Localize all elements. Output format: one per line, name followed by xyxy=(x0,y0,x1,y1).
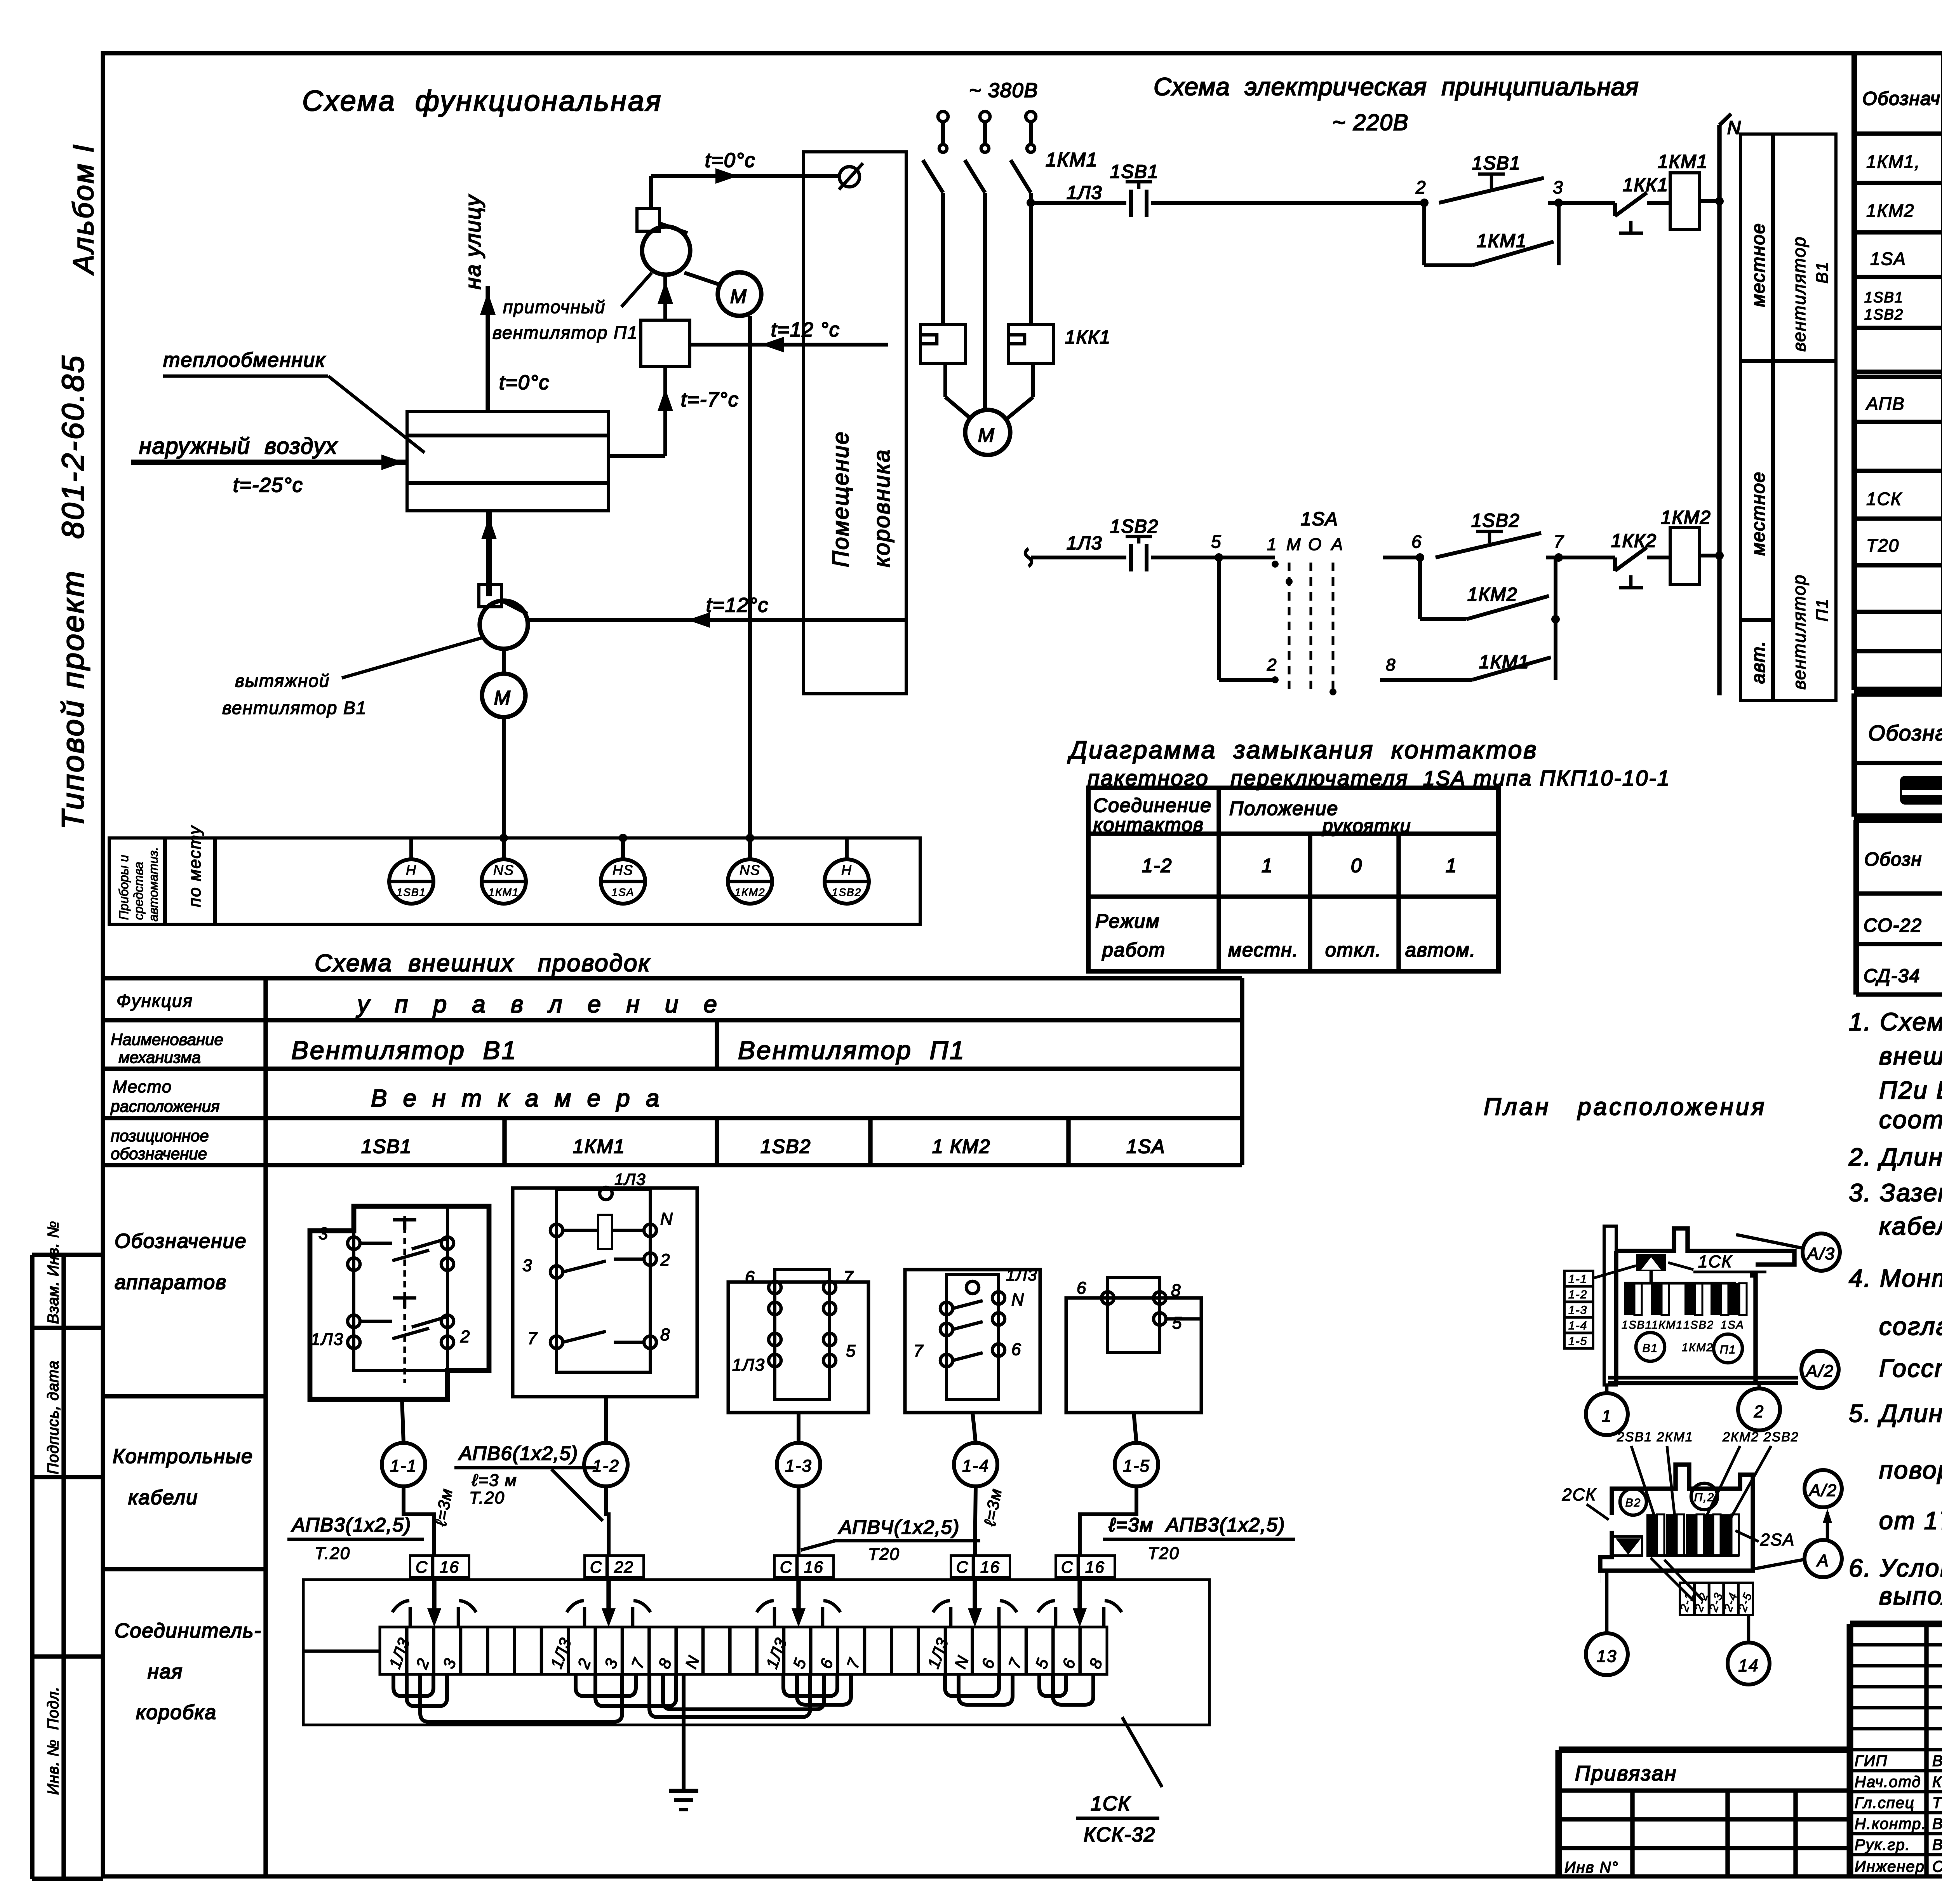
thermal element 1KK1 heaters xyxy=(921,203,1053,363)
apparatus box 1SB2 xyxy=(728,1270,868,1413)
label supply fan P1 xyxy=(492,273,652,343)
cable list table upper plan xyxy=(1564,1271,1593,1348)
labels lower plan designators xyxy=(1617,1430,1799,1521)
cable circle 1-2 xyxy=(584,1397,628,1556)
labels upper plan apparatus xyxy=(1622,1319,1744,1354)
svg-text:1SA: 1SA xyxy=(1126,1136,1166,1157)
svg-text:Н.контр.: Н.контр. xyxy=(1855,1815,1926,1833)
fixings table grid xyxy=(1856,817,1942,995)
svg-text:местн.: местн. xyxy=(1228,939,1299,961)
svg-text:1КМ1: 1КМ1 xyxy=(489,886,519,898)
svg-text:А/3: А/3 xyxy=(1806,1244,1835,1263)
svg-text:8: 8 xyxy=(660,1325,670,1344)
legend labels xyxy=(1748,223,1832,690)
svg-text:22: 22 xyxy=(614,1558,634,1576)
conduit marker C 16 xyxy=(951,1556,1010,1610)
svg-text:1SB2: 1SB2 xyxy=(760,1136,811,1157)
exhaust fan V1 xyxy=(479,584,528,649)
svg-text:1SB2: 1SB2 xyxy=(1864,307,1904,323)
supply terminals 380V xyxy=(938,111,1036,152)
svg-text:0: 0 xyxy=(1351,855,1363,876)
svg-text:повороты и отходы согласно пи: повороты и отходы согласно письму Госстр… xyxy=(1879,1456,1942,1484)
svg-text:расположения: расположения xyxy=(110,1097,220,1115)
labels box 1SB1 xyxy=(311,1224,470,1349)
duct filter to fan arrow xyxy=(658,275,673,320)
svg-text:1-2: 1-2 xyxy=(1142,855,1172,876)
svg-text:Диаграмма замыкания контакто: Диаграмма замыкания контактов xyxy=(1067,736,1538,764)
svg-text:П1: П1 xyxy=(1720,1343,1736,1356)
labels box 1SB2 xyxy=(732,1268,856,1374)
svg-text:16: 16 xyxy=(440,1558,459,1576)
svg-text:Кардонский: Кардонский xyxy=(1932,1773,1942,1791)
layout plan upper room walls xyxy=(1604,1226,1798,1385)
svg-text:А/2: А/2 xyxy=(1808,1481,1837,1500)
svg-text:1Л3: 1Л3 xyxy=(732,1355,765,1374)
external wiring table cells xyxy=(291,991,1166,1157)
svg-text:Волкова: Волкова xyxy=(1932,1815,1942,1833)
svg-text:Т.20: Т.20 xyxy=(315,1544,350,1563)
exhaust duct arrow up xyxy=(481,511,497,596)
svg-text:1СК: 1СК xyxy=(1698,1252,1732,1271)
left labels control cables xyxy=(113,1445,253,1509)
svg-text:В1: В1 xyxy=(1643,1342,1658,1355)
svg-text:1Л3: 1Л3 xyxy=(311,1330,344,1349)
svg-text:5: 5 xyxy=(1211,531,1222,552)
svg-text:1: 1 xyxy=(1602,1407,1612,1426)
svg-text:6: 6 xyxy=(1077,1279,1087,1298)
svg-text:3. Заземление приборов, стоек: 3. Заземление приборов, стоек металличес… xyxy=(1849,1179,1942,1207)
svg-text:2SB1 2КМ1: 2SB1 2КМ1 xyxy=(1617,1430,1693,1444)
junction dot on strip wire xyxy=(619,834,627,842)
svg-text:2: 2 xyxy=(660,1251,670,1270)
equipment legend text xyxy=(1868,713,1942,745)
title contact closure diagram xyxy=(1067,736,1671,790)
svg-text:ℓ=3м АПВ3(1х2,5): ℓ=3м АПВ3(1х2,5) xyxy=(1108,1514,1285,1536)
svg-text:С: С xyxy=(956,1558,969,1576)
disconnect switch blades 1KM1 main xyxy=(923,160,1031,410)
svg-text:Вентилятор В1: Вентилятор В1 xyxy=(291,1036,517,1064)
apparatus box 1KM1 xyxy=(513,1187,697,1397)
terminal strip labels xyxy=(385,1635,1106,1671)
svg-text:14: 14 xyxy=(1738,1656,1759,1675)
external wiring table labels xyxy=(110,991,223,1163)
svg-text:теплообменник: теплообменник xyxy=(163,349,326,371)
svg-text:1КМ1: 1КМ1 xyxy=(1046,149,1098,171)
svg-text:7: 7 xyxy=(844,1268,854,1287)
svg-text:NS: NS xyxy=(493,862,514,878)
svg-text:О: О xyxy=(1308,535,1322,554)
contact closure table text xyxy=(1093,794,1476,961)
motor M of fan V1 xyxy=(482,649,526,717)
svg-text:1-2: 1-2 xyxy=(592,1456,619,1475)
legend table ventilators xyxy=(1740,134,1836,700)
node 3 xyxy=(1554,199,1563,207)
fan circles lower plan xyxy=(1620,1483,1718,1515)
conduit marker C 16 xyxy=(1056,1556,1115,1610)
svg-text:16: 16 xyxy=(980,1558,1000,1576)
svg-text:1КМ1: 1КМ1 xyxy=(1477,231,1527,251)
svg-text:АПВ3(1х2,5): АПВ3(1х2,5) xyxy=(291,1514,411,1536)
cable label APV4 xyxy=(801,1487,1005,1564)
svg-text:2SA: 2SA xyxy=(1760,1530,1795,1549)
svg-text:Госстроя СССР.: Госстроя СССР. xyxy=(1879,1354,1942,1382)
wire rail rung2 start xyxy=(1025,549,1126,566)
svg-text:План расположения: План расположения xyxy=(1484,1094,1766,1120)
svg-text:1КК1: 1КК1 xyxy=(1065,327,1111,348)
svg-text:ℓ=3 м: ℓ=3 м xyxy=(472,1471,517,1490)
node 7 xyxy=(1554,553,1563,562)
svg-text:Т.20: Т.20 xyxy=(469,1488,505,1507)
label heat exchanger xyxy=(163,349,425,453)
svg-text:Альбом I: Альбом I xyxy=(67,143,99,275)
svg-text:6. Условные обозначения на сре: 6. Условные обозначения на средства авто… xyxy=(1849,1554,1942,1582)
jumper wires in junction box xyxy=(303,1651,1093,1722)
svg-text:7: 7 xyxy=(914,1341,924,1360)
svg-text:~ 220В: ~ 220В xyxy=(1332,110,1409,135)
svg-text:1SB1: 1SB1 xyxy=(1110,162,1159,182)
cable circle 1-5 xyxy=(1080,1413,1158,1556)
switch 1SA dashed linkage xyxy=(1289,563,1333,695)
svg-text:наружный воздух: наружный воздух xyxy=(139,434,338,459)
parts table rows text xyxy=(1864,149,1942,608)
svg-text:Волкова: Волкова xyxy=(1932,1836,1942,1853)
svg-text:t=-25°c: t=-25°c xyxy=(233,474,303,496)
svg-text:Гл.спец: Гл.спец xyxy=(1855,1794,1915,1812)
svg-text:коровника: коровника xyxy=(869,449,894,567)
svg-text:Помещение: Помещение xyxy=(828,431,853,567)
svg-text:Соединитель-: Соединитель- xyxy=(115,1620,262,1642)
ground wire and symbol xyxy=(669,1674,698,1810)
conduit marker C 16 xyxy=(410,1556,469,1610)
svg-text:2: 2 xyxy=(460,1327,470,1346)
duct riser t=-7C xyxy=(608,367,673,456)
duct t=0C to room xyxy=(651,168,839,184)
svg-text:согласно строительным нормам и: согласно строительным нормам и правилам … xyxy=(1879,1312,1942,1340)
svg-text:рукоятки: рукоятки xyxy=(1322,816,1411,836)
svg-text:С: С xyxy=(1061,1558,1074,1576)
svg-text:N: N xyxy=(660,1209,673,1228)
svg-text:6: 6 xyxy=(1411,531,1422,552)
svg-text:Положение: Положение xyxy=(1229,798,1338,819)
svg-text:N: N xyxy=(1011,1290,1025,1309)
label instruments strip xyxy=(117,847,160,922)
heat exchanger xyxy=(407,411,608,511)
svg-text:7: 7 xyxy=(527,1329,538,1348)
room box Pomeschenie korovnika xyxy=(804,152,906,694)
supply fan P1 xyxy=(637,176,690,275)
wire rung1 to node2 xyxy=(1151,201,1424,205)
apparatus box 1KM2 xyxy=(905,1270,1040,1413)
svg-text:АПВЧ(1х2,5): АПВЧ(1х2,5) xyxy=(838,1516,960,1538)
svg-text:1КМ2: 1КМ2 xyxy=(1661,507,1711,528)
svg-text:КСК-32: КСК-32 xyxy=(1084,1824,1155,1846)
svg-text:аппаратов: аппаратов xyxy=(115,1271,227,1294)
apparatus box 1SB1 xyxy=(310,1206,489,1399)
svg-text:~ 380В: ~ 380В xyxy=(969,79,1038,102)
svg-text:по месту: по месту xyxy=(185,825,204,907)
junction box symbol 1SK on plan xyxy=(1636,1254,1666,1283)
svg-text:2СК: 2СК xyxy=(1562,1485,1596,1504)
svg-text:Обозн: Обозн xyxy=(1864,849,1922,870)
axis circle 2 xyxy=(1738,1383,1780,1430)
parts table header text xyxy=(1862,81,1942,110)
svg-text:Инв N°: Инв N° xyxy=(1564,1859,1619,1876)
svg-text:Взам. Инв. №: Взам. Инв. № xyxy=(45,1221,62,1324)
svg-text:В1: В1 xyxy=(1813,261,1832,284)
contact 1KM1 aux hold xyxy=(1424,203,1559,265)
fixings table text xyxy=(1864,844,1942,990)
svg-text:вентилятор В1: вентилятор В1 xyxy=(222,698,367,718)
svg-text:1 КМ2: 1 КМ2 xyxy=(932,1136,991,1157)
svg-text:соответственно.: соответственно. xyxy=(1879,1106,1942,1134)
svg-text:Место: Место xyxy=(113,1077,172,1096)
svg-text:3: 3 xyxy=(522,1256,532,1275)
signature table names xyxy=(1855,1752,1942,1875)
svg-text:вентилятор: вентилятор xyxy=(1789,574,1809,690)
cable circle 1-4 xyxy=(954,1413,997,1556)
svg-text:С: С xyxy=(416,1558,428,1576)
svg-text:Подпись, дата: Подпись, дата xyxy=(45,1360,62,1474)
svg-text:1-1: 1-1 xyxy=(390,1456,417,1475)
svg-text:А/2: А/2 xyxy=(1805,1362,1834,1381)
leader from cable table to 1SK xyxy=(1593,1266,1636,1278)
labels 2 8 1KM1 interlock xyxy=(1267,652,1530,674)
axis circle 13 xyxy=(1586,1571,1628,1675)
conduit marker C 22 xyxy=(585,1556,644,1610)
cable list table lower plan xyxy=(1651,1558,1755,1615)
instruments strip box xyxy=(109,838,920,924)
svg-text:1-5: 1-5 xyxy=(1568,1335,1587,1348)
svg-text:Обозначение: Обозначение xyxy=(115,1230,247,1252)
svg-text:HS: HS xyxy=(613,862,633,878)
signature table grid xyxy=(1850,1624,1942,1876)
label 2SK xyxy=(1562,1485,1609,1520)
parts table grid xyxy=(1854,53,1942,693)
svg-text:1SB1: 1SB1 xyxy=(1472,153,1521,174)
wire node5 to switch xyxy=(1219,556,1275,559)
svg-text:Типовой проект 801-2-60.85: Типовой проект 801-2-60.85 xyxy=(56,354,90,829)
label outside air xyxy=(139,434,338,496)
button 1SB2 NO xyxy=(1436,531,1559,557)
svg-text:1SA: 1SA xyxy=(1870,249,1906,269)
svg-text:Рук.гр.: Рук.гр. xyxy=(1855,1836,1911,1853)
privyazan box xyxy=(1559,1762,1850,1876)
left labels apparatus designation xyxy=(115,1230,247,1294)
svg-text:Володина: Володина xyxy=(1932,1752,1942,1770)
wire rail rung1 xyxy=(1031,201,1126,205)
svg-text:работ: работ xyxy=(1102,939,1166,961)
labels box 1KM2 xyxy=(914,1266,1038,1360)
svg-text:авт.: авт. xyxy=(1748,640,1769,684)
notes text block xyxy=(1848,1008,1942,1610)
wire coil2 to N rail xyxy=(1700,554,1719,557)
svg-text:1SA: 1SA xyxy=(612,886,635,898)
svg-text:Соединение: Соединение xyxy=(1093,794,1212,816)
svg-text:1КК1: 1КК1 xyxy=(1623,175,1669,195)
svg-text:Схема внешних проводок: Схема внешних проводок xyxy=(315,950,651,977)
svg-text:М: М xyxy=(494,687,511,709)
conduit marker C 16 xyxy=(774,1556,834,1610)
svg-text:6: 6 xyxy=(745,1268,755,1287)
svg-text:1КМ2: 1КМ2 xyxy=(1682,1341,1714,1354)
junction box 1SK outline xyxy=(303,1580,1209,1725)
svg-text:П,2: П,2 xyxy=(1694,1491,1715,1504)
wire switch to node6 xyxy=(1383,556,1420,559)
svg-text:1Л3: 1Л3 xyxy=(1067,183,1102,203)
svg-text:коробка: коробка xyxy=(136,1701,217,1724)
svg-text:4. Монтаж приборов и средств а: 4. Монтаж приборов и средств автоматизац… xyxy=(1849,1264,1942,1292)
svg-text:2: 2 xyxy=(1415,177,1427,197)
motor M three phase xyxy=(945,363,1033,455)
svg-text:Н: Н xyxy=(841,862,852,878)
contact 1KM2 aux hold xyxy=(1420,557,1556,619)
motor M of fan P1 xyxy=(684,272,761,316)
svg-text:t=12°c: t=12°c xyxy=(706,594,769,617)
svg-text:1СК: 1СК xyxy=(1091,1793,1131,1815)
axis circle 1 xyxy=(1586,1385,1628,1435)
svg-text:вентилятор: вентилятор xyxy=(1789,236,1809,352)
svg-text:2. Длины трасс при нарезке уто: 2. Длины трасс при нарезке уточнить. xyxy=(1848,1143,1942,1171)
external wiring table grid xyxy=(103,978,1242,1876)
svg-text:1КМ1: 1КМ1 xyxy=(1658,152,1708,172)
svg-text:местное: местное xyxy=(1748,471,1769,556)
filter box of P1 xyxy=(641,320,690,367)
svg-text:вытяжной: вытяжной xyxy=(235,671,330,691)
svg-text:Н: Н xyxy=(406,862,417,878)
svg-text:1Л3: 1Л3 xyxy=(1006,1266,1038,1284)
instrument circle 1SB1 xyxy=(389,838,433,904)
terminal strip xyxy=(380,1627,1107,1674)
svg-text:Контрольные: Контрольные xyxy=(113,1445,253,1468)
cable circle 1-3 xyxy=(777,1413,820,1556)
node 1L3 tap xyxy=(1027,199,1035,207)
svg-text:СО-22: СО-22 xyxy=(1864,915,1922,936)
svg-text:ГИП: ГИП xyxy=(1855,1752,1888,1770)
svg-text:1SA: 1SA xyxy=(1721,1319,1744,1331)
svg-text:средства: средства xyxy=(131,862,146,920)
svg-text:NS: NS xyxy=(740,862,760,878)
labels box 1KM1 xyxy=(522,1170,673,1348)
contact closure table 1SA xyxy=(1088,788,1498,971)
labels box 1SA xyxy=(1077,1279,1182,1333)
apparatus box 1SA xyxy=(1066,1277,1201,1413)
duct outside air inlet xyxy=(131,455,405,470)
thermal contact 1KK2 xyxy=(1559,547,1670,588)
svg-text:1-4: 1-4 xyxy=(962,1456,989,1475)
apparatus rectangles lower plan xyxy=(1646,1514,1739,1556)
svg-text:С: С xyxy=(590,1558,602,1576)
svg-text:1SB2: 1SB2 xyxy=(1110,516,1159,537)
instrument circle 1SA xyxy=(601,838,645,904)
cable entry fans xyxy=(392,1601,476,1627)
svg-text:1Л3: 1Л3 xyxy=(1067,533,1102,554)
label 1SK KSK-32 xyxy=(1076,1717,1162,1846)
duct t=12C from room to fan V1 xyxy=(529,612,905,628)
svg-text:1: 1 xyxy=(1446,855,1457,876)
svg-text:1SB2: 1SB2 xyxy=(1471,510,1520,531)
svg-text:Обознач.: Обознач. xyxy=(1868,721,1942,745)
svg-text:А: А xyxy=(1330,535,1343,554)
svg-text:выполнены в соответствии с ОС: выполнены в соответствии с ОСТ 36.27-77. xyxy=(1879,1582,1942,1610)
svg-text:СД-34: СД-34 xyxy=(1864,966,1920,986)
svg-text:кабелей выполнить согласно ПУЭ: кабелей выполнить согласно ПУЭ. xyxy=(1879,1212,1942,1240)
svg-text:Обознач: Обознач xyxy=(1862,89,1941,109)
svg-text:Наименование: Наименование xyxy=(111,1030,223,1049)
svg-text:2: 2 xyxy=(1267,655,1277,674)
N rail xyxy=(1719,114,1731,695)
svg-text:Терещенко: Терещенко xyxy=(1932,1794,1942,1812)
svg-text:АПВ6(1х2,5): АПВ6(1х2,5) xyxy=(458,1442,578,1464)
svg-text:А: А xyxy=(1816,1551,1829,1570)
button 1SB1 NC xyxy=(1126,182,1152,217)
svg-text:Т20: Т20 xyxy=(1866,535,1899,556)
svg-text:5: 5 xyxy=(1172,1313,1182,1333)
svg-text:1SB1: 1SB1 xyxy=(361,1136,412,1157)
svg-text:1-1: 1-1 xyxy=(1568,1273,1587,1286)
svg-text:1-2: 1-2 xyxy=(1568,1288,1587,1301)
svg-text:местное: местное xyxy=(1748,223,1769,307)
svg-text:контактов: контактов xyxy=(1093,814,1204,836)
title block outer lines xyxy=(1559,1624,1942,1876)
svg-text:1-5: 1-5 xyxy=(1123,1456,1150,1475)
callout circle A3 xyxy=(1736,1233,1840,1271)
svg-text:16: 16 xyxy=(1085,1558,1105,1576)
fan circles upper plan xyxy=(1636,1333,1742,1363)
svg-text:1КМ2: 1КМ2 xyxy=(735,886,766,898)
svg-text:П2и В2 схемы аналогичны с заме: П2и В2 схемы аналогичны с заменой индекс… xyxy=(1879,1076,1942,1104)
label 2SA xyxy=(1735,1530,1795,1549)
svg-text:1SA: 1SA xyxy=(1301,509,1338,530)
svg-text:Привязан: Привязан xyxy=(1575,1762,1677,1785)
svg-text:1-3: 1-3 xyxy=(785,1456,812,1475)
callout circle A2 upper xyxy=(1801,1351,1839,1388)
exhaust outlet arrow na ulitsu xyxy=(480,286,496,411)
instrument circle 1КМ2 xyxy=(728,838,772,904)
svg-text:Нач.отд: Нач.отд xyxy=(1855,1773,1921,1791)
label exhaust fan V1 xyxy=(222,637,484,718)
instrument circle 1КМ1 xyxy=(482,838,526,904)
svg-text:М: М xyxy=(730,286,747,307)
svg-text:1СК: 1СК xyxy=(1866,489,1902,509)
svg-text:1Л3: 1Л3 xyxy=(614,1170,646,1188)
coil 1KM2 xyxy=(1670,528,1700,584)
duct t=12C to filter xyxy=(690,337,888,352)
svg-text:2КМ2 2SB2: 2КМ2 2SB2 xyxy=(1722,1430,1799,1444)
svg-text:Схема функциональная: Схема функциональная xyxy=(302,85,663,117)
svg-text:t=0°c: t=0°c xyxy=(499,371,550,394)
svg-text:Т20: Т20 xyxy=(868,1545,900,1564)
svg-text:П1: П1 xyxy=(1813,598,1832,622)
svg-text:13: 13 xyxy=(1597,1647,1617,1666)
svg-text:от 17.12. 1979г N89-Д .: от 17.12. 1979г N89-Д . xyxy=(1879,1507,1942,1535)
svg-text:АПВ: АПВ xyxy=(1865,394,1905,414)
svg-text:вентилятор П1: вентилятор П1 xyxy=(492,322,638,343)
wire motor P1 to instruments xyxy=(748,316,752,838)
cable circle 1-1 xyxy=(382,1399,434,1556)
svg-text:М: М xyxy=(978,424,995,446)
switch 1SA terminals labels xyxy=(1267,535,1343,554)
button 1SB1 NO xyxy=(1439,174,1559,203)
svg-text:автоматиз.: автоматиз. xyxy=(146,847,160,922)
svg-text:позиционное: позиционное xyxy=(111,1127,209,1145)
layout plan lower room walls xyxy=(1600,1465,1753,1583)
svg-text:1КМ1: 1КМ1 xyxy=(1479,652,1530,672)
damper symbol circle with slash xyxy=(839,163,863,190)
svg-text:Приборы и: Приборы и xyxy=(117,855,131,920)
svg-text:7: 7 xyxy=(1554,531,1564,552)
svg-text:t=0°c: t=0°c xyxy=(705,149,756,172)
svg-text:Т20: Т20 xyxy=(1148,1544,1180,1563)
